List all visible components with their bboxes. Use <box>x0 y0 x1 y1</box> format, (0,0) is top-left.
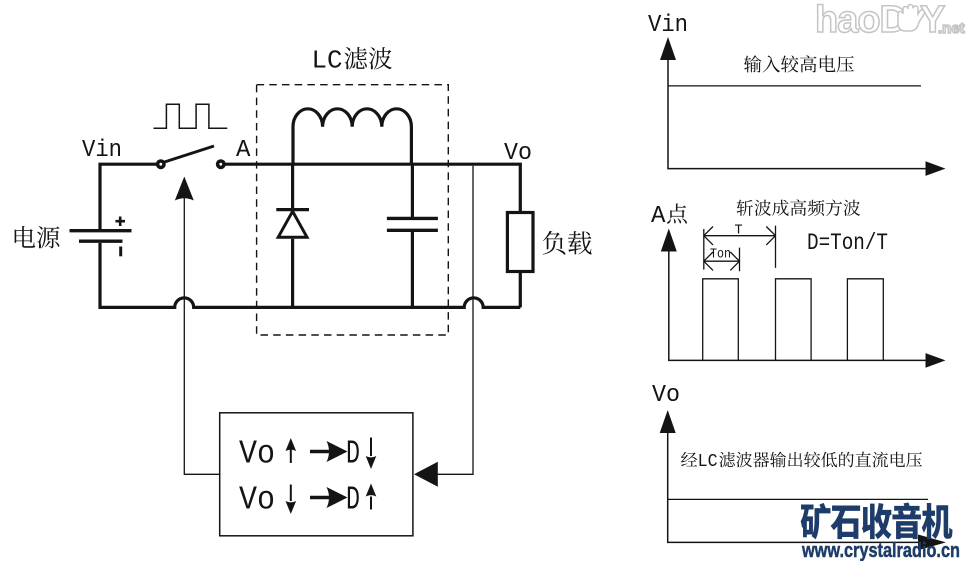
wire: diode to bottom rail <box>291 239 294 308</box>
svg-text:Vin: Vin <box>648 12 688 39</box>
graph1 input voltage level line <box>668 85 921 87</box>
switch S1 blade (open) <box>165 146 215 162</box>
graph3 y-axis <box>668 428 926 542</box>
wire: cap bottom to rail <box>411 232 414 308</box>
svg-text:A: A <box>236 137 251 164</box>
switch S1 contact circle right <box>218 161 224 167</box>
svg-text:Vo: Vo <box>652 382 680 409</box>
battery minus sign <box>119 247 122 257</box>
svg-text:LC: LC <box>698 452 718 472</box>
battery B1 (power source) <box>70 231 132 242</box>
svg-text:haoD: haoD <box>815 0 906 41</box>
svg-text:A: A <box>651 203 666 230</box>
label 电源 <box>15 226 36 248</box>
wire: battery positive to switch <box>100 164 157 230</box>
capacitor C1 top plate <box>387 217 438 220</box>
label 负载 <box>543 231 566 255</box>
graph1 x-axis arrowhead <box>926 161 946 176</box>
graph2 x-axis arrowhead <box>926 353 946 368</box>
diode D1 triangle <box>278 211 307 237</box>
svg-text:Vo: Vo <box>504 140 532 167</box>
LC filter dashed box <box>257 85 449 335</box>
graph2 pulse 2 <box>776 279 812 361</box>
bottom return rail with crossover hops <box>100 243 520 307</box>
feedback sense line from Vo <box>437 166 473 475</box>
feedback arrowhead into control box <box>414 462 438 487</box>
svg-text:.net: .net <box>938 20 965 37</box>
graph2 pulse 1 <box>703 279 739 361</box>
svg-text:Ton: Ton <box>710 247 731 263</box>
graph2 y-axis <box>669 247 926 360</box>
graph3 annotation 经LC滤波器输出较低的直流电压 <box>681 452 697 467</box>
square-wave drive symbol above switch <box>154 104 228 128</box>
wire: node to Vo / load <box>412 164 520 212</box>
svg-text:T: T <box>735 224 743 239</box>
svg-text:Vo: Vo <box>239 436 275 473</box>
diode D1 cathode bar <box>276 208 309 211</box>
T period dimension line with ticks <box>704 226 776 270</box>
graph1 y-axis <box>668 55 926 169</box>
graph2 annotation 斩波成高频方波 <box>737 200 753 216</box>
wire: load bottom <box>519 272 522 308</box>
haoDIY.net logo <box>815 0 965 41</box>
svg-text:D=Ton/T: D=Ton/T <box>807 230 888 256</box>
wire: switch to LC filter / node A <box>225 163 413 166</box>
svg-text:LC: LC <box>312 46 343 76</box>
svg-text:Vo: Vo <box>239 482 275 519</box>
Ton dimension line with ticks <box>704 248 740 272</box>
battery plus sign <box>116 217 126 227</box>
graph2 pulse 3 <box>847 279 883 361</box>
graph3 x-axis arrowhead <box>918 535 946 551</box>
svg-text:D: D <box>346 436 360 473</box>
graph1 annotation 输入较高电压 <box>744 55 761 72</box>
wire: cap top <box>411 164 414 217</box>
feedback control arrow to switch <box>184 196 219 474</box>
load resistor RL <box>507 213 533 272</box>
inductor L1 <box>293 109 411 164</box>
capacitor C1 bottom plate <box>387 229 438 232</box>
switch S1 contact circle left <box>158 161 164 167</box>
svg-text:www.crystalradio.cn: www.crystalradio.cn <box>801 539 960 561</box>
svg-text:D: D <box>346 482 360 519</box>
graph3 output dc level line <box>668 498 928 500</box>
watermark 矿石收音机 <box>801 503 831 539</box>
wire: node A down to diode <box>291 164 294 208</box>
svg-text:Vin: Vin <box>82 137 122 164</box>
feedback control box <box>220 413 413 536</box>
